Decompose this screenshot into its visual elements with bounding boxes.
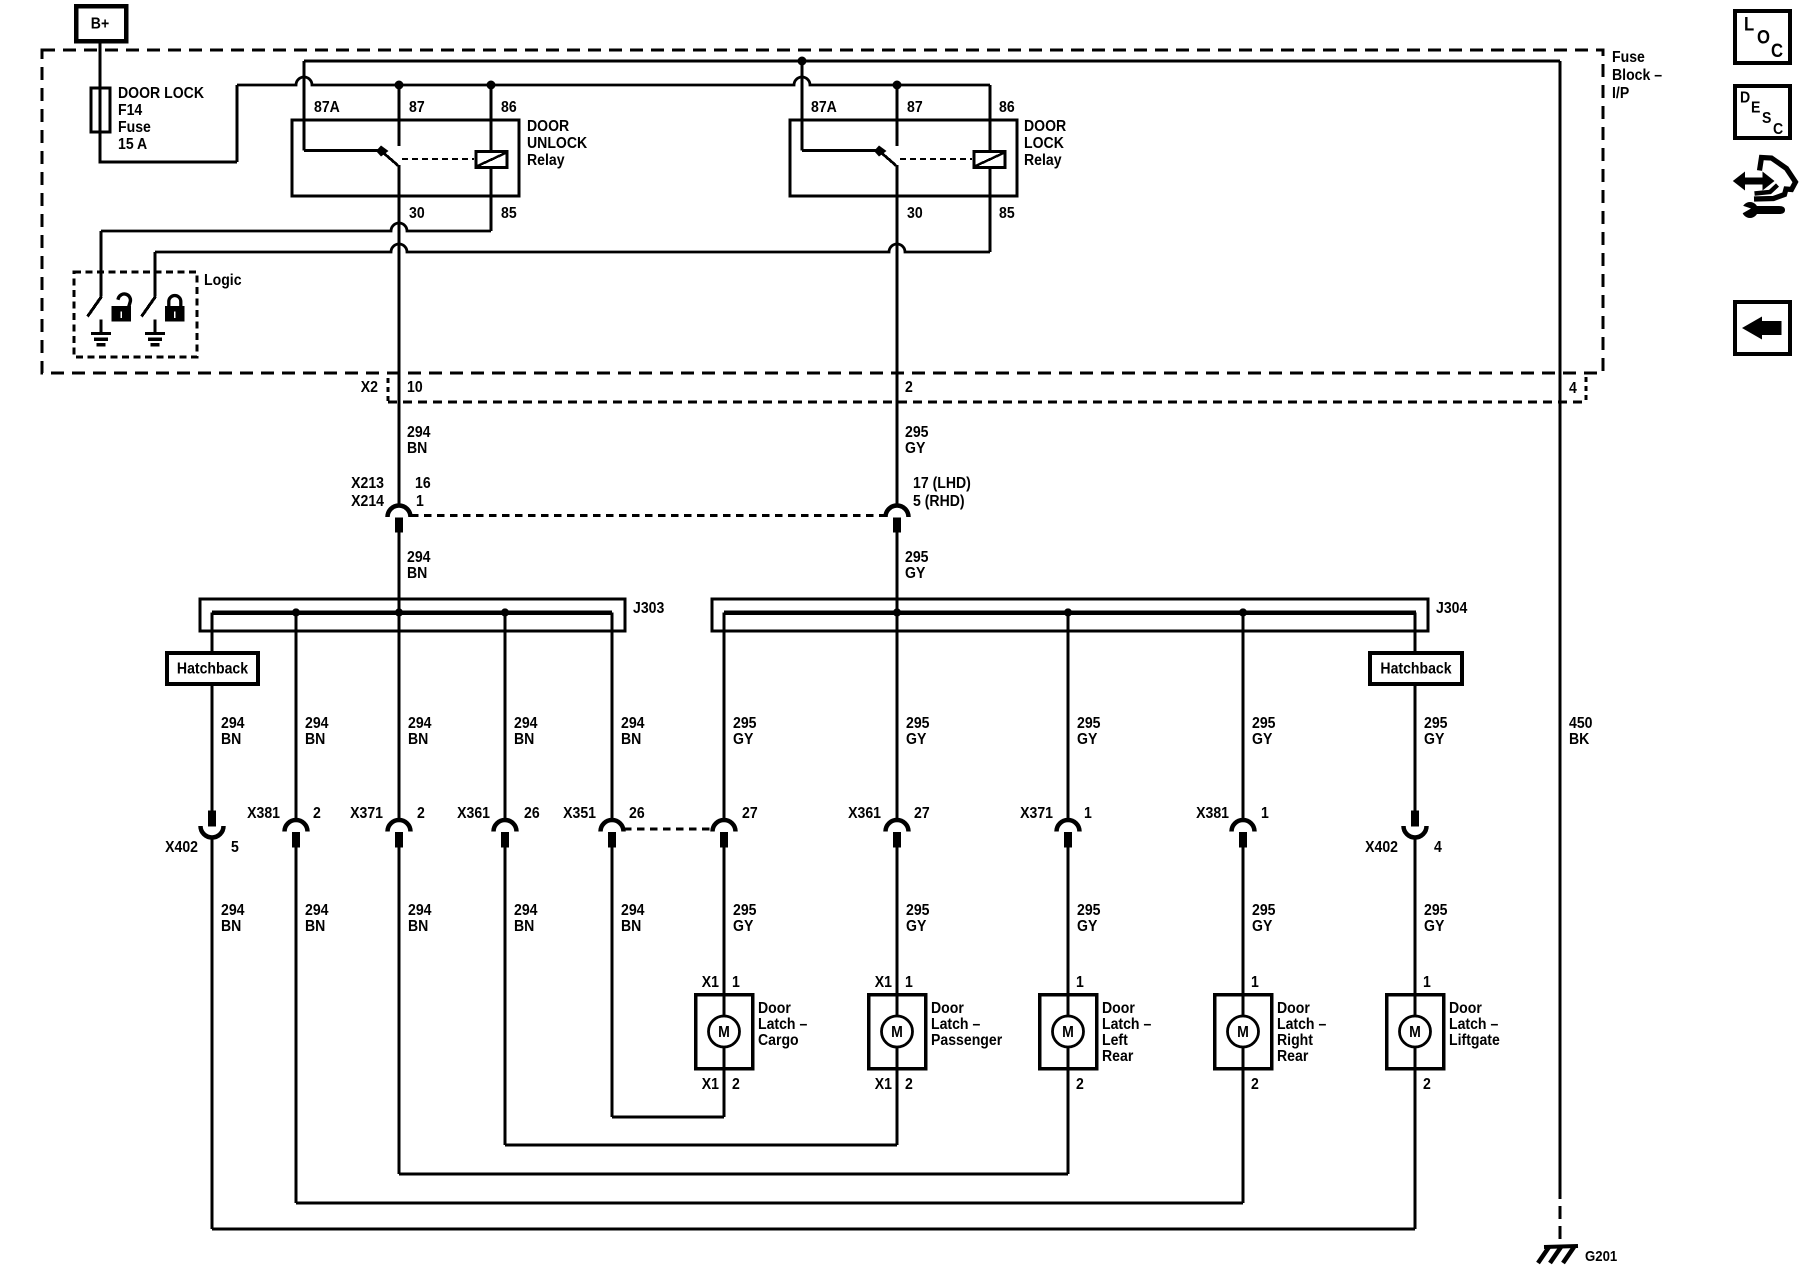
svg-text:M: M [1237, 1023, 1249, 1041]
wire 450 BK (line A down right side) [1559, 61, 1562, 1186]
return wire 296 to 1243 [296, 1202, 1243, 1205]
svg-text:1: 1 [1084, 804, 1092, 822]
relay U1 87A contact arm [304, 149, 380, 152]
svg-text:GY: GY [1252, 917, 1272, 935]
connector X213/X214 left half [388, 506, 411, 517]
hatchback box left [167, 653, 258, 684]
splice pack J303 bus bar [212, 610, 612, 615]
svg-text:BK: BK [1569, 730, 1589, 748]
motor door latch box at 897 [869, 995, 926, 1069]
wire J304 branch at 1068 [1067, 613, 1070, 821]
X2 separator right [1585, 377, 1588, 402]
connector X361 right [886, 820, 909, 831]
wire 295 GY right vertical (relay 30 to X213) [896, 165, 899, 506]
svg-text:C: C [1773, 120, 1783, 138]
svg-text:M: M [718, 1023, 730, 1041]
connector X402 left (inverted) [209, 811, 216, 826]
svg-text:BN: BN [514, 730, 534, 748]
relay U2 actuation dashed link [900, 158, 972, 160]
motor pin2 wire at 724 [723, 1070, 726, 1117]
svg-text:B+: B+ [91, 15, 110, 33]
svg-text:Rear: Rear [1277, 1047, 1308, 1065]
svg-text:Relay: Relay [527, 151, 565, 169]
switch unlock lower stub [100, 320, 103, 333]
svg-text:5: 5 [231, 838, 239, 856]
icon back-arrow glyph [1742, 317, 1781, 340]
wire inside fuse [98, 88, 101, 132]
svg-text:1: 1 [416, 492, 424, 510]
relay U1 pin 86 wire [490, 85, 493, 152]
svg-text:M: M [1062, 1023, 1074, 1041]
wire 294 BN down at 212 [211, 838, 214, 1229]
svg-text:DOOR: DOOR [527, 117, 569, 135]
relay U1 coil box [476, 152, 507, 168]
svg-text:4: 4 [1434, 838, 1442, 856]
motor door latch box at 1415 [1387, 995, 1444, 1069]
svg-text:87: 87 [409, 98, 425, 116]
svg-text:X402: X402 [1365, 838, 1398, 856]
svg-text:BN: BN [305, 730, 325, 748]
svg-text:Passenger: Passenger [931, 1031, 1002, 1049]
motor pin2 wire at 897 [896, 1070, 899, 1145]
svg-text:4: 4 [1569, 379, 1577, 397]
icon programming (double arrow, loop, wrench) [1733, 158, 1796, 218]
svg-text:X1: X1 [702, 1075, 719, 1093]
svg-text:BN: BN [621, 917, 641, 935]
relay U1 switch blade [383, 153, 398, 166]
relay U1 DOOR UNLOCK box [292, 120, 519, 196]
junction dot 87 left relay [395, 81, 403, 89]
svg-text:86: 86 [999, 98, 1015, 116]
svg-text:BN: BN [305, 917, 325, 935]
connector X213/X214 dashed link [411, 514, 885, 517]
switch lock blade [142, 297, 156, 317]
motor pin2 wire at 1415 [1414, 1070, 1417, 1229]
svg-text:27: 27 [742, 804, 758, 822]
junction dot 87 right relay [893, 81, 901, 89]
wire 295 GY down at 1068 [1067, 847, 1070, 993]
svg-text:X214: X214 [351, 492, 384, 510]
wire 294 BN down at 399 [398, 847, 401, 1174]
icon box back-arrow [1735, 302, 1790, 354]
motor wire in at 1415 [1414, 994, 1417, 1016]
svg-text:X1: X1 [702, 973, 719, 991]
relay U2 coil diagonal [976, 153, 1004, 166]
svg-text:M: M [891, 1023, 903, 1041]
return wire 399 to 1068 [399, 1173, 1068, 1176]
padlock closed icon [166, 296, 185, 322]
wire up to feed line [235, 85, 238, 162]
ground symbol unlock [91, 332, 111, 335]
wire 294 BN down at 505 [504, 847, 507, 1145]
svg-text:Liftgate: Liftgate [1449, 1031, 1500, 1049]
svg-text:X371: X371 [350, 804, 383, 822]
fuse block I/P dashed border [42, 50, 1603, 373]
connector X381 left [285, 820, 308, 831]
svg-text:15 A: 15 A [118, 135, 147, 153]
switch lock lower stub [154, 320, 157, 333]
relay U1 pin 87 stub [398, 85, 401, 146]
svg-text:GY: GY [906, 730, 926, 748]
splice pack J304 box [712, 599, 1428, 631]
relay U2 pin 85 wire [989, 168, 992, 253]
wire J304 branch at 1243 [1242, 613, 1245, 821]
motor door latch box at 724 [696, 995, 753, 1069]
motor door latch box at 1068 [1040, 995, 1097, 1069]
wire 450 BK dashed tail [1559, 1186, 1562, 1245]
icon box DESC [1735, 86, 1790, 138]
ground G201 symbol [1538, 1246, 1578, 1263]
svg-text:GY: GY [905, 439, 925, 457]
splice pack J304 bus bar [724, 610, 1416, 615]
svg-text:X361: X361 [457, 804, 490, 822]
svg-text:X381: X381 [247, 804, 280, 822]
svg-text:X1: X1 [875, 973, 892, 991]
wire line A (87A feed, top) [304, 60, 1560, 63]
svg-text:GY: GY [1424, 730, 1444, 748]
connector X361 left [494, 820, 517, 831]
wire hatchback left down [211, 684, 214, 812]
svg-text:BN: BN [621, 730, 641, 748]
wire J304 branch at 724 [723, 613, 726, 821]
svg-text:Relay: Relay [1024, 151, 1062, 169]
junction dot 86 left relay [487, 81, 495, 89]
relay U1 fixed contact [376, 146, 389, 157]
relay U1 actuation dashed link [402, 158, 474, 160]
motor wire out at 1415 [1414, 1047, 1417, 1070]
connector X402 right (inverted) [1412, 811, 1419, 826]
motor wire in at 897 [896, 994, 899, 1016]
svg-text:G201: G201 [1585, 1247, 1617, 1264]
svg-text:O: O [1757, 27, 1770, 48]
X2 connector dotted line [388, 401, 1586, 404]
svg-text:J304: J304 [1436, 599, 1468, 617]
return wire 505 to 897 [505, 1144, 897, 1147]
motor wire out at 897 [896, 1047, 899, 1070]
wire 294 BN to J303 [398, 532, 401, 613]
relay U1 coil diagonal [478, 153, 506, 166]
svg-text:Block –: Block – [1612, 66, 1662, 84]
wire J304 to hatchback box [1414, 613, 1417, 654]
svg-text:GY: GY [906, 917, 926, 935]
wire line D (lock switch to 85) [155, 244, 990, 252]
svg-text:UNLOCK: UNLOCK [527, 134, 587, 152]
wire hatchback right down [1414, 684, 1417, 811]
svg-text:26: 26 [629, 804, 645, 822]
wire 295 GY down at 724 [723, 847, 726, 993]
svg-text:2: 2 [905, 378, 913, 396]
svg-text:BN: BN [514, 917, 534, 935]
svg-text:Logic: Logic [204, 271, 242, 289]
wire J303 branch at 505 [504, 613, 507, 821]
connector X351 [601, 820, 624, 831]
relay U1 pin 85 wire [490, 168, 493, 232]
svg-text:17 (LHD): 17 (LHD) [913, 474, 971, 492]
svg-text:X1: X1 [875, 1075, 892, 1093]
J304 bus junction dots [893, 609, 900, 616]
svg-text:C: C [1771, 40, 1783, 61]
wire line B (fused feed) [237, 77, 990, 85]
X2 separator left [387, 378, 390, 402]
svg-text:Hatchback: Hatchback [1380, 660, 1452, 678]
motor M circle at 1243 [1228, 1016, 1259, 1047]
svg-text:DOOR LOCK: DOOR LOCK [118, 84, 204, 102]
connector X371 right [1057, 820, 1080, 831]
motor pin2 wire at 1068 [1067, 1070, 1070, 1174]
return wire 612 to 724 [612, 1116, 724, 1119]
B+ terminal box [76, 6, 126, 41]
svg-text:10: 10 [407, 378, 423, 396]
svg-text:2: 2 [1076, 1075, 1084, 1093]
svg-text:2: 2 [1251, 1075, 1259, 1093]
padlock open icon [112, 292, 132, 321]
svg-text:GY: GY [1077, 917, 1097, 935]
wire 295 GY down at 1415 [1414, 838, 1417, 993]
relay U2 pin 87 stub [896, 85, 899, 146]
svg-text:GY: GY [1077, 730, 1097, 748]
motor door latch box at 1243 [1215, 995, 1272, 1069]
motor wire out at 1243 [1242, 1047, 1245, 1070]
svg-text:2: 2 [905, 1075, 913, 1093]
wire fuse down and right [100, 132, 237, 162]
wire J303 to hatchback box [211, 613, 214, 654]
relay U2 coil box [974, 152, 1005, 168]
motor wire in at 724 [723, 994, 726, 1016]
connector X213/X214 right half [886, 506, 909, 517]
connector pin 27 left [713, 820, 736, 831]
wire 295 GY down at 897 [896, 847, 899, 993]
svg-text:X381: X381 [1196, 804, 1229, 822]
ground symbol lock [145, 332, 165, 335]
svg-text:X213: X213 [351, 474, 384, 492]
relay U2 switch blade [881, 153, 896, 166]
logic dashed box [74, 272, 197, 357]
svg-text:S: S [1762, 109, 1771, 127]
svg-text:Hatchback: Hatchback [177, 660, 249, 678]
svg-text:85: 85 [501, 204, 517, 222]
svg-text:M: M [1409, 1023, 1421, 1041]
wire 295 GY down at 1243 [1242, 847, 1245, 993]
svg-text:F14: F14 [118, 101, 143, 119]
motor wire in at 1243 [1242, 994, 1245, 1016]
wire J303 branch at 296 [295, 613, 298, 821]
motor wire in at 1068 [1067, 994, 1070, 1016]
svg-text:D: D [1740, 89, 1750, 107]
icon box LOC (top right) [1735, 11, 1790, 63]
J303 bus junction dots [292, 609, 299, 616]
hatchback box right [1370, 653, 1462, 684]
connector X371 left [388, 820, 411, 831]
svg-text:2: 2 [732, 1075, 740, 1093]
fuse F14 symbol [91, 88, 110, 132]
svg-text:86: 86 [501, 98, 517, 116]
wire line D drop [154, 252, 157, 297]
wire J303 branch at 399 [398, 613, 401, 821]
svg-text:LOCK: LOCK [1024, 134, 1064, 152]
splice pack J303 box [200, 599, 625, 631]
svg-text:Fuse: Fuse [118, 118, 151, 136]
relay U2 fixed contact [874, 146, 887, 157]
svg-text:1: 1 [1251, 973, 1259, 991]
wire J304 branch at 897 [896, 613, 899, 821]
wire B+ to fuse [98, 43, 101, 88]
motor M circle at 1068 [1053, 1016, 1084, 1047]
svg-text:87A: 87A [314, 98, 340, 116]
wire 295 GY to J304 [896, 532, 899, 613]
svg-text:X402: X402 [165, 838, 198, 856]
svg-text:Rear: Rear [1102, 1047, 1133, 1065]
wire 294 BN left vertical (relay 30 to X213) [398, 165, 401, 506]
svg-text:GY: GY [733, 917, 753, 935]
relay U2 DOOR LOCK box [790, 120, 1017, 196]
svg-text:J303: J303 [633, 599, 664, 617]
svg-text:26: 26 [524, 804, 540, 822]
svg-text:Fuse: Fuse [1612, 48, 1645, 66]
svg-text:BN: BN [221, 730, 241, 748]
svg-text:1: 1 [732, 973, 740, 991]
svg-text:I/P: I/P [1612, 84, 1629, 102]
svg-text:30: 30 [907, 204, 923, 222]
connector X381 right [1232, 820, 1255, 831]
svg-text:X371: X371 [1020, 804, 1053, 822]
svg-text:X361: X361 [848, 804, 881, 822]
connector link X351 to 27 dashed [624, 828, 712, 831]
svg-text:BN: BN [407, 564, 427, 582]
svg-text:85: 85 [999, 204, 1015, 222]
svg-text:2: 2 [1423, 1075, 1431, 1093]
wire J303 branch at 612 [611, 613, 614, 821]
svg-text:GY: GY [733, 730, 753, 748]
relay U2 87A contact arm [802, 149, 878, 152]
svg-text:5 (RHD): 5 (RHD) [913, 492, 965, 510]
svg-text:X2: X2 [361, 378, 378, 396]
wire 294 BN down at 612 [611, 847, 614, 1117]
relay U2 pin 86 wire [989, 85, 992, 152]
svg-text:E: E [1751, 99, 1760, 117]
svg-text:DOOR: DOOR [1024, 117, 1066, 135]
svg-text:1: 1 [905, 973, 913, 991]
svg-text:1: 1 [1423, 973, 1431, 991]
svg-text:GY: GY [1424, 917, 1444, 935]
svg-text:Cargo: Cargo [758, 1031, 799, 1049]
svg-text:L: L [1744, 14, 1754, 35]
wire line C (unlock switch to 85) [101, 223, 491, 231]
relay U1 pin 87A wire [303, 61, 306, 151]
svg-text:1: 1 [1076, 973, 1084, 991]
svg-text:BN: BN [408, 730, 428, 748]
svg-text:87: 87 [907, 98, 923, 116]
relay U2 pin 87A wire [801, 61, 804, 151]
motor M circle at 1415 [1400, 1016, 1431, 1047]
svg-text:GY: GY [905, 564, 925, 582]
motor wire out at 1068 [1067, 1047, 1070, 1070]
svg-text:87A: 87A [811, 98, 837, 116]
svg-text:27: 27 [914, 804, 930, 822]
svg-text:BN: BN [408, 917, 428, 935]
junction dot line A at right relay 87A [798, 57, 806, 65]
svg-text:2: 2 [417, 804, 425, 822]
svg-text:GY: GY [1252, 730, 1272, 748]
switch unlock blade [88, 297, 102, 317]
svg-text:16: 16 [415, 474, 431, 492]
svg-text:30: 30 [409, 204, 425, 222]
return wire 212 to 1415 [212, 1228, 1415, 1231]
svg-text:1: 1 [1261, 804, 1269, 822]
motor wire out at 724 [723, 1047, 726, 1070]
wire line C drop [100, 231, 103, 297]
motor pin2 wire at 1243 [1242, 1070, 1245, 1203]
svg-text:BN: BN [407, 439, 427, 457]
svg-text:BN: BN [221, 917, 241, 935]
svg-text:X351: X351 [563, 804, 596, 822]
motor M circle at 724 [709, 1016, 740, 1047]
svg-text:2: 2 [313, 804, 321, 822]
motor M circle at 897 [882, 1016, 913, 1047]
wire 294 BN down at 296 [295, 847, 298, 1203]
